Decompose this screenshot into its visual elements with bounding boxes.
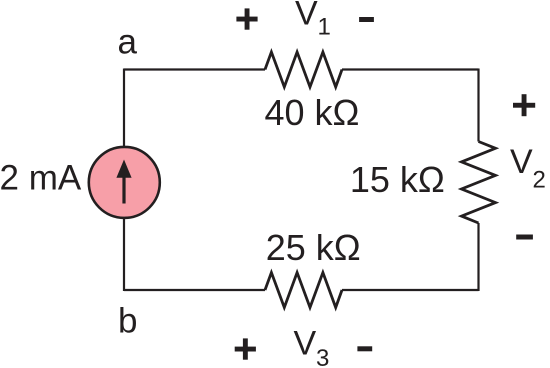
wire right vertical upper segment <box>477 69 479 142</box>
wire right vertical lower segment <box>477 223 479 291</box>
wire top-left horizontal segment <box>124 68 265 70</box>
plus sign of V3 <box>235 338 256 359</box>
wire left vertical upper segment (node a to source) <box>123 69 125 148</box>
svg-text:1: 1 <box>318 13 331 40</box>
svg-text:3: 3 <box>316 345 329 368</box>
wire left vertical lower segment (source to node b) <box>123 218 125 291</box>
current source arrow shaft <box>122 176 125 204</box>
wire bottom-left horizontal segment <box>124 289 265 291</box>
minus sign of V3 <box>357 346 372 351</box>
resistor 25 kOhm (bottom) <box>265 273 342 308</box>
current source 2 mA (circle) <box>89 147 160 218</box>
svg-text:b: b <box>118 302 137 341</box>
minus sign of V2 <box>516 235 533 240</box>
svg-text:2 mA: 2 mA <box>0 159 82 198</box>
current source arrow head <box>116 160 131 178</box>
plus sign of V2 <box>513 94 535 116</box>
svg-text:25 kΩ: 25 kΩ <box>266 227 361 268</box>
minus sign of V1 <box>359 17 374 22</box>
wire bottom-right horizontal segment <box>342 289 479 291</box>
svg-text:V: V <box>295 0 318 33</box>
svg-text:a: a <box>118 23 138 62</box>
plus sign of V1 <box>236 8 257 29</box>
svg-text:V: V <box>294 325 317 363</box>
resistor 15 kOhm (right) <box>462 142 496 224</box>
svg-text:40 kΩ: 40 kΩ <box>265 92 360 133</box>
svg-text:V: V <box>510 143 533 181</box>
resistor 40 kOhm (top) <box>265 52 342 87</box>
svg-text:15 kΩ: 15 kΩ <box>350 159 445 200</box>
svg-text:2: 2 <box>533 166 546 193</box>
wire top-right horizontal segment <box>342 68 479 70</box>
